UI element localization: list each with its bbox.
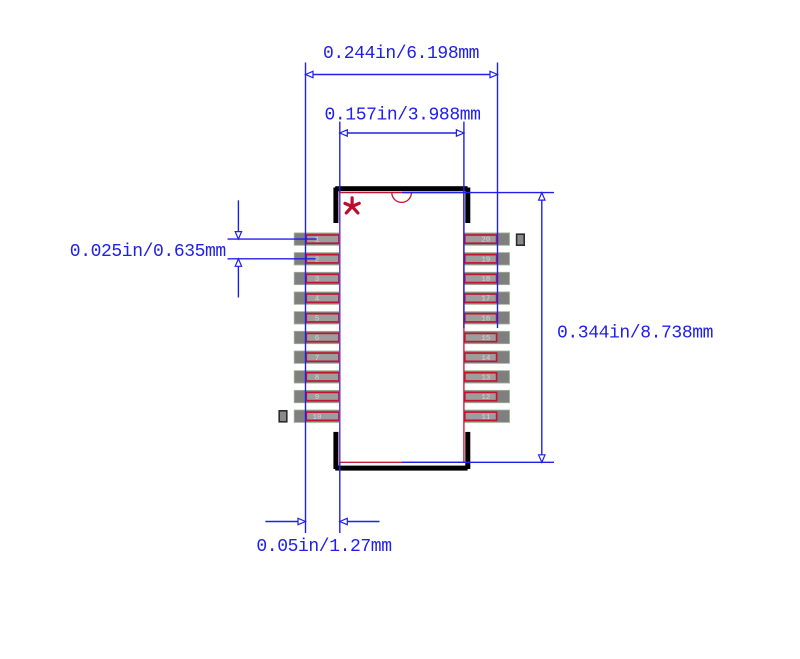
silkscreen bottom-right corner stub <box>465 432 470 469</box>
pad 3 (left, paste/copper layers) <box>294 272 340 284</box>
pad 2 (left, paste/copper layers) <box>294 253 340 265</box>
svg-text:0.344in/8.738mm: 0.344in/8.738mm <box>557 324 713 344</box>
pin-1 marker asterisk <box>345 198 359 213</box>
svg-text:19: 19 <box>481 256 490 264</box>
pad 7 (left, paste/copper layers) <box>294 351 340 363</box>
pad 18 (right, paste/copper layers) <box>464 272 510 284</box>
pin-1 end notch (semicircle) <box>392 193 412 203</box>
svg-text:14: 14 <box>481 355 491 363</box>
silkscreen top bar <box>335 186 467 191</box>
silkscreen bottom-left corner stub <box>333 432 338 469</box>
pad 4 (left, paste/copper layers) <box>294 292 340 304</box>
package body outline <box>340 193 464 463</box>
svg-text:9: 9 <box>315 394 320 402</box>
svg-text:0.244in/6.198mm: 0.244in/6.198mm <box>323 44 479 64</box>
dimension 0.05in/1.27mm: arrows, label <box>256 518 391 557</box>
pad 8 (left, paste/copper layers) <box>294 371 340 383</box>
dimension 0.157in/3.988mm: extension lines, arrows, label <box>325 106 481 534</box>
svg-text:17: 17 <box>481 296 490 304</box>
pad 11 (right, paste/copper layers) <box>464 410 510 422</box>
pin-20 layer marker square (top right) <box>517 234 525 245</box>
svg-text:7: 7 <box>315 355 320 363</box>
dimension 0.244in/6.198mm: extension lines, arrows, label <box>306 44 498 533</box>
silkscreen bottom bar <box>335 466 467 471</box>
svg-text:4: 4 <box>315 296 320 304</box>
dimension 0.025in/0.635mm: witness lines, arrows, label <box>70 200 317 297</box>
svg-text:18: 18 <box>481 276 490 284</box>
pad 14 (right, paste/copper layers) <box>464 351 510 363</box>
svg-text:10: 10 <box>312 414 322 422</box>
pad 9 (left, paste/copper layers) <box>294 390 340 402</box>
dimension 0.344in/8.738mm: extension lines, arrows, label <box>402 193 713 463</box>
svg-text:2: 2 <box>315 256 320 264</box>
svg-text:5: 5 <box>315 315 320 323</box>
svg-text:0.157in/3.988mm: 0.157in/3.988mm <box>325 106 481 126</box>
pad 16 (right, paste/copper layers) <box>464 312 510 324</box>
svg-text:8: 8 <box>315 374 320 382</box>
pad 12 (right, paste/copper layers) <box>464 390 510 402</box>
svg-text:20: 20 <box>481 237 491 245</box>
svg-text:13: 13 <box>481 374 491 382</box>
pad 20 (right, paste/copper layers) <box>464 233 510 245</box>
svg-text:6: 6 <box>315 335 320 343</box>
pad 5 (left, paste/copper layers) <box>294 312 340 324</box>
pad 1 (left, paste/copper layers) <box>294 233 340 245</box>
pad 15 (right, paste/copper layers) <box>464 331 510 343</box>
svg-text:12: 12 <box>481 394 490 402</box>
svg-text:3: 3 <box>315 276 320 284</box>
silkscreen top-right corner stub <box>465 188 470 224</box>
pin-10 layer marker square (bottom left) <box>279 411 287 422</box>
pad 17 (right, paste/copper layers) <box>464 292 510 304</box>
svg-text:0.025in/0.635mm: 0.025in/0.635mm <box>70 242 226 262</box>
svg-text:16: 16 <box>481 315 491 323</box>
pad 10 (left, paste/copper layers) <box>294 410 340 422</box>
silkscreen top-left corner stub <box>333 188 338 224</box>
svg-text:15: 15 <box>481 335 491 343</box>
svg-text:11: 11 <box>481 414 491 422</box>
svg-text:1: 1 <box>315 237 320 245</box>
pad 13 (right, paste/copper layers) <box>464 371 510 383</box>
pad 6 (left, paste/copper layers) <box>294 331 340 343</box>
pad 19 (right, paste/copper layers) <box>464 253 510 265</box>
svg-text:0.05in/1.27mm: 0.05in/1.27mm <box>256 537 391 557</box>
